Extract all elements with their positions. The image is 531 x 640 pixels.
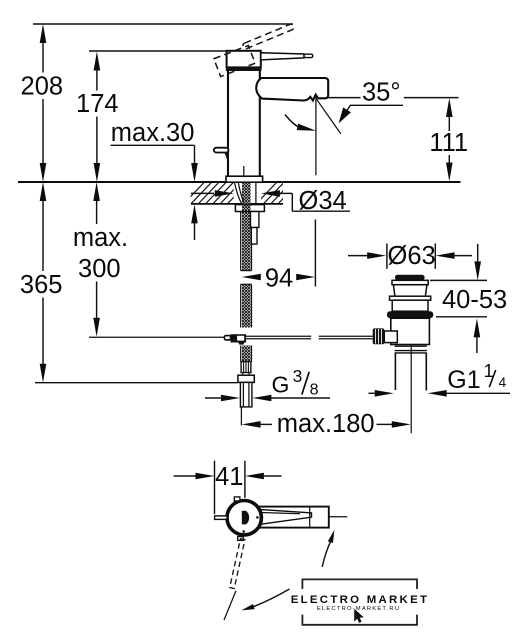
rod coupling sleeve	[224, 336, 230, 340]
supply nipple pipe	[240, 382, 252, 407]
G3/8 coupling hex nut	[238, 375, 254, 382]
drain centerline	[410, 344, 412, 433]
pop-up rod in shank hole	[255, 183, 257, 203]
dimension 174	[76, 52, 119, 183]
coupling ring	[395, 345, 427, 347]
handle cap block	[227, 51, 261, 68]
35 degree line	[316, 97, 361, 99]
drain body	[391, 318, 430, 344]
extension line below supply pipe	[240, 407, 242, 426]
pop-up rod upper section (stepped)	[251, 212, 259, 228]
svg-text:208: 208	[21, 73, 64, 101]
mounting nut under deck	[235, 205, 264, 212]
top tab	[234, 497, 240, 501]
dimension 94	[242, 220, 316, 293]
dimension 111	[429, 98, 468, 182]
deck cross-section hatching left of shank	[183, 182, 249, 205]
countertop deck top line	[18, 181, 461, 183]
svg-text:4: 4	[499, 375, 507, 390]
flange upper body (tapered)	[393, 285, 427, 297]
dimension Ø34 leader and arrows	[191, 187, 350, 215]
faucet centerline above escutcheon	[243, 166, 245, 181]
svg-text:111: 111	[429, 129, 468, 157]
svg-text:Ø34: Ø34	[299, 187, 347, 215]
mouse cursor	[354, 609, 364, 623]
dimension Ø63	[348, 242, 472, 270]
leader arrow from 35deg label to stream line	[335, 105, 403, 126]
365 bottom reference line	[35, 382, 238, 384]
escutcheon base plate	[226, 176, 263, 182]
svg-text:300: 300	[78, 255, 121, 283]
leader line from dashed lever end	[224, 591, 236, 620]
threaded shank / braided hose through deck	[242, 183, 251, 271]
pop-up drain assembly	[373, 275, 434, 433]
dimension max.30 label and leader	[111, 119, 198, 240]
dashed lever alternate position (plan)	[230, 539, 245, 589]
dimension 40-53	[430, 244, 507, 353]
dimension 208	[21, 24, 64, 182]
hose break cap	[241, 270, 252, 272]
reference line 174 level	[89, 50, 227, 52]
dashed lever arm (raised position)	[242, 23, 294, 49]
horizontal pop-up pivot rod	[89, 336, 224, 338]
svg-text:G: G	[272, 371, 290, 397]
flange lip band	[390, 296, 431, 300]
cartridge D mark	[242, 511, 249, 525]
dimension max.300	[73, 182, 128, 337]
faucet body sides	[227, 71, 229, 176]
flange lower body	[392, 300, 428, 311]
dimension max.180	[242, 410, 411, 438]
svg-text:365: 365	[20, 271, 63, 299]
G1 1/4 dimension arrows	[369, 390, 511, 397]
thick black seal ring	[387, 311, 433, 318]
svg-text:G1: G1	[447, 366, 480, 394]
dimension 41	[174, 461, 282, 515]
top reference line (208 level)	[33, 23, 293, 25]
centre tick right of spout	[329, 516, 347, 518]
lever handle horizontal	[261, 53, 304, 60]
svg-text:3: 3	[293, 366, 303, 386]
compression fitting (striped)	[241, 362, 251, 373]
water stream line at 35deg	[316, 98, 341, 134]
svg-text:ELECTRO-MARKET.RU: ELECTRO-MARKET.RU	[317, 606, 400, 612]
hose outline left	[240, 212, 242, 271]
knurled adjustment knob	[373, 328, 385, 344]
bottom tab	[238, 537, 244, 541]
pop-up rod knob at rear	[214, 148, 229, 162]
neck	[243, 373, 249, 376]
svg-text:max.30: max.30	[111, 119, 195, 147]
spout in plan view	[258, 507, 347, 528]
detail dots	[256, 516, 259, 519]
svg-text:35°: 35°	[362, 78, 401, 106]
tailpipe	[394, 353, 396, 390]
lever tip tab pointing left	[215, 516, 228, 520]
rod clamp block	[231, 334, 247, 342]
dashed handle cap (raised position)	[214, 46, 255, 77]
svg-text:174: 174	[76, 90, 119, 118]
svg-text:41: 41	[215, 463, 243, 491]
swivel arc arrow right of plan view	[322, 529, 337, 567]
hose segment below rod	[242, 346, 251, 362]
label G1 1/4	[447, 361, 506, 394]
hose outline right	[251, 245, 253, 271]
svg-text:ELECTRO MARKET: ELECTRO MARKET	[291, 594, 430, 606]
vertical stream reference line	[315, 98, 317, 175]
svg-text:Ø63: Ø63	[388, 242, 436, 270]
deck cross-section hatching right of shank	[256, 182, 300, 205]
svg-text:max.180: max.180	[277, 410, 375, 438]
G3/8 dimension arrows	[205, 395, 330, 402]
svg-text:max.: max.	[73, 224, 128, 252]
watermark logo box ELECTRO MARKET	[291, 579, 430, 624]
hose lower segment	[242, 284, 251, 327]
side port connector	[384, 331, 397, 343]
cap bottom band	[226, 67, 262, 71]
svg-text:8: 8	[310, 381, 319, 398]
dimension 365	[20, 182, 63, 383]
spout (with rounded root cap and aerator notch)	[256, 78, 328, 101]
faucet body circle in plan	[227, 497, 261, 540]
shank hole funnel curves	[235, 183, 242, 203]
plug top black band	[395, 275, 425, 281]
lever over spout (tapered)	[261, 510, 312, 525]
plug upper collar	[392, 280, 428, 284]
svg-text:40-53: 40-53	[442, 286, 507, 314]
svg-text:94: 94	[265, 265, 293, 293]
rotate arc arrow at dashed lever	[241, 589, 290, 613]
label G 3/8	[272, 366, 319, 398]
curved adjust arrow at spout	[285, 115, 317, 135]
deck bottom line	[191, 203, 283, 205]
